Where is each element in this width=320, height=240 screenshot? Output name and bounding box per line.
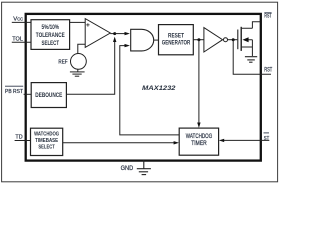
block debounce [31, 83, 66, 108]
wire debounce output up to junction [66, 37, 116, 95]
pin GND [121, 160, 144, 172]
pin RST (active low, top right) [264, 13, 271, 20]
node comparator output junction [110, 32, 116, 35]
node reset generator output junction [197, 38, 200, 41]
svg-text:SELECT: SELECT [42, 40, 60, 47]
svg-text:MAX1232: MAX1232 [142, 85, 176, 92]
ground below REF [70, 69, 85, 76]
svg-text:TOLERANCE: TOLERANCE [36, 32, 65, 39]
block watchdog timer [179, 128, 218, 155]
svg-text:WATCHDOG: WATCHDOG [186, 134, 213, 140]
wire junction to RST output [233, 40, 271, 75]
wire drain to RST pin [252, 22, 260, 28]
svg-text:SELECT: SELECT [38, 144, 55, 150]
svg-text:5%/10%: 5%/10% [42, 24, 60, 31]
comparator U1 [85, 19, 110, 48]
svg-text:RST: RST [264, 67, 272, 74]
transistor Q1 N-channel MOSFET [238, 27, 253, 56]
node gate junction [232, 38, 235, 41]
block 5%/10% tolerance select [31, 20, 70, 50]
pin PB RST (active low) [5, 86, 31, 95]
svg-text:GENERATOR: GENERATOR [162, 40, 191, 47]
block reset generator [159, 25, 194, 55]
svg-text:CC: CC [17, 16, 23, 21]
svg-text:TIMER: TIMER [191, 141, 207, 147]
wire AND gate to reset generator [154, 39, 159, 41]
svg-text:RST: RST [264, 14, 271, 20]
ground symbol GND pin [137, 169, 151, 175]
block watchdog timebase select [31, 128, 63, 155]
svg-text:DEBOUNCE: DEBOUNCE [35, 92, 62, 99]
pin ST (active low) [264, 133, 270, 142]
svg-text:TD: TD [15, 135, 22, 141]
svg-text:WATCHDOG: WATCHDOG [34, 132, 59, 138]
wire inverter to MOSFET gate [228, 39, 238, 41]
svg-text:TIMEBASE: TIMEBASE [35, 138, 58, 144]
pin TOL [12, 37, 31, 43]
wire watchdog timer to AND gate [120, 44, 180, 135]
wire ST to watchdog timer [219, 139, 269, 142]
ground below Q1 [245, 57, 257, 63]
IC outline MAX1232 [26, 14, 261, 161]
wire reset generator to inverter [193, 39, 204, 41]
wire tolerance select to comparator + input [70, 21, 86, 23]
pin RST (bottom right) [264, 67, 272, 74]
wire junction down to watchdog timer [197, 40, 200, 128]
reference REF [71, 54, 87, 70]
wire timebase select to watchdog timer [63, 141, 179, 144]
svg-text:GND: GND [121, 165, 134, 172]
AND gate [131, 29, 154, 51]
pin VCC [12, 16, 31, 22]
svg-text:RESET: RESET [168, 33, 184, 40]
pin TD [15, 135, 31, 141]
svg-text:PB RST: PB RST [5, 89, 23, 95]
svg-text:ST: ST [264, 136, 270, 142]
svg-text:REF: REF [58, 59, 68, 65]
wire REF to comparator - input [78, 44, 85, 53]
svg-text:TOL: TOL [12, 37, 23, 43]
wire comparator output to AND gate [115, 32, 130, 35]
inverter [204, 28, 228, 52]
